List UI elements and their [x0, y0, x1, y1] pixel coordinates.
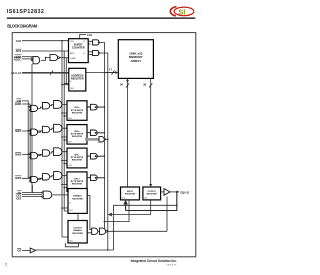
wire right gate2 rail down staircase	[100, 53, 151, 250]
gate OR row2 b	[43, 126, 50, 132]
svg-text:CLK: CLK	[70, 41, 75, 43]
wire CLK rail	[62, 41, 69, 237]
svg-text:REGISTER: REGISTER	[125, 193, 136, 195]
svg-text:BW3: BW3	[15, 176, 21, 180]
heading BLOCK DIAGRAM	[7, 24, 38, 29]
pin label ADSC	[14, 57, 22, 61]
register byte write 1	[67, 101, 87, 121]
write driver bus arrow	[85, 137, 108, 142]
register output enable pipeline	[68, 221, 87, 244]
pin label CLK top	[87, 33, 92, 37]
label 36 right	[143, 83, 146, 87]
svg-text:OE: OE	[17, 249, 21, 253]
wire gate1 to gate2	[41, 58, 50, 61]
gate AND row4 c	[54, 172, 62, 180]
junction gate jog	[45, 57, 47, 59]
bus slash 36 right	[149, 83, 152, 87]
arrowhead into memory	[115, 71, 118, 74]
wire ADSP input	[22, 56, 31, 58]
gate NOR row3 a	[30, 153, 31, 154]
wire B0 out to right gates	[88, 41, 92, 54]
pin label CLK left	[16, 39, 22, 43]
gate AND output enable	[92, 228, 98, 234]
logo ICSI	[170, 7, 193, 17]
wire ADSP qualify rail	[31, 64, 33, 193]
footer company	[131, 259, 178, 263]
svg-text:ARRAY: ARRAY	[130, 59, 142, 63]
header rule	[7, 17, 196, 19]
arrowhead write bus	[126, 78, 129, 81]
wire gate2 out to B0 load	[59, 57, 69, 59]
wire load rail	[64, 58, 69, 84]
wire right gate1 rail down to memory address line	[100, 42, 118, 231]
label DQ	[181, 191, 190, 194]
svg-text:COUNTER: COUNTER	[72, 46, 85, 50]
svg-text:ADSC: ADSC	[14, 57, 22, 61]
wire CLK input	[22, 40, 69, 42]
pin label BW3	[15, 176, 21, 180]
register data output	[143, 187, 161, 200]
register B0 burst address counter	[69, 39, 89, 63]
svg-text:ENABLE: ENABLE	[73, 195, 82, 198]
svg-text:A0,A,A1: A0,A,A1	[11, 71, 22, 75]
buffer output driver	[161, 189, 180, 196]
gate OR row3 b	[43, 150, 50, 156]
gate AND right row1	[87, 104, 104, 110]
label 17	[109, 68, 112, 72]
byte write row2	[28, 124, 67, 135]
svg-text:REGISTER: REGISTER	[72, 136, 83, 138]
svg-text:CLK: CLK	[87, 33, 92, 37]
register B1 address register	[69, 68, 86, 91]
svg-text:REGISTER: REGISTER	[72, 198, 83, 200]
register enable	[68, 189, 87, 214]
gate NOR row2 a	[30, 130, 31, 131]
wire ADSC input	[22, 58, 31, 60]
register byte write 3	[67, 148, 87, 168]
wire write data bus up	[127, 80, 129, 188]
svg-text:CLK: CLK	[70, 88, 75, 90]
diagram border	[12, 33, 196, 257]
wire row4	[28, 176, 67, 182]
svg-text:ENABLE: ENABLE	[73, 229, 82, 232]
wire B1 to memory array	[86, 72, 117, 74]
byte write row1	[28, 101, 67, 112]
svg-text:CE2: CE2	[16, 196, 22, 200]
pin label A	[11, 71, 22, 75]
svg-text:SI: SI	[178, 7, 185, 16]
svg-text:ADV: ADV	[16, 49, 22, 53]
register byte write 2	[67, 125, 87, 145]
bus slash 36 left	[126, 83, 129, 87]
wire ADV rail	[64, 51, 68, 211]
gate OR row1 b	[43, 103, 50, 109]
svg-text:OUTPUT: OUTPUT	[73, 227, 82, 229]
svg-text:DR009-0E: DR009-0E	[166, 265, 177, 267]
svg-text:REGISTER: REGISTER	[72, 233, 83, 235]
pin label CE2b	[16, 196, 22, 200]
gate AND CE	[42, 191, 68, 199]
gate AND right row3	[87, 153, 104, 159]
gate NOR row4 a	[30, 177, 31, 178]
wire B0 clk stub	[80, 35, 86, 39]
pin label BWE	[15, 102, 21, 106]
memory array	[118, 40, 153, 79]
wire GW rail	[22, 64, 43, 193]
pin label ADV	[16, 49, 22, 53]
wire address bus A	[22, 72, 69, 74]
gate AND right top 2	[93, 50, 100, 55]
wire row3	[28, 152, 67, 158]
register byte write 4	[67, 172, 87, 192]
gate AND clk/adsp	[50, 55, 59, 61]
pin label BW1	[15, 129, 21, 133]
bus slash A	[50, 71, 53, 75]
svg-text:CLK: CLK	[16, 39, 22, 43]
footer docnum	[166, 265, 177, 267]
wire DQ feedback	[104, 191, 177, 250]
pin label CE	[18, 191, 22, 195]
svg-text:Integrated Circuit Solution In: Integrated Circuit Solution Inc.	[131, 259, 178, 263]
gate NOR row1 a	[30, 106, 31, 107]
wire BW3 line	[22, 177, 43, 179]
buffer OE	[22, 248, 114, 253]
register data input	[121, 187, 140, 200]
title IS61SP12832	[7, 9, 44, 15]
byte write row4	[28, 172, 67, 183]
pin label OE	[17, 249, 21, 253]
svg-text:DQ0-31: DQ0-31	[181, 191, 190, 194]
pin label CE2	[16, 194, 22, 198]
gate AND row1 c	[54, 101, 62, 109]
svg-text:REGISTER: REGISTER	[72, 184, 83, 186]
gate AND row3 c	[54, 148, 62, 156]
svg-text:REGISTER: REGISTER	[147, 193, 158, 195]
wire row1	[28, 104, 67, 110]
wire row2	[28, 128, 67, 134]
svg-text:REGISTER: REGISTER	[72, 112, 83, 114]
gate AND right row2	[87, 130, 104, 136]
svg-text:REGISTER: REGISTER	[71, 78, 84, 81]
wire BW2 line	[22, 154, 43, 156]
svg-text:REGISTER: REGISTER	[72, 160, 83, 162]
gate AND right row4	[87, 175, 104, 181]
wire enable chain	[65, 196, 91, 247]
footer page number	[5, 262, 8, 267]
overbars active-low	[15, 49, 22, 249]
wire read data bus down	[150, 78, 152, 185]
svg-text:BW2: BW2	[15, 152, 21, 156]
svg-text:ADV: ADV	[70, 52, 75, 55]
wire BW1 line	[22, 130, 43, 132]
wire CE inputs	[22, 185, 42, 197]
pin label ADSP	[14, 55, 22, 59]
bus slash 17	[112, 70, 115, 74]
svg-text:BWE: BWE	[15, 102, 21, 106]
svg-text:LOAD: LOAD	[70, 57, 76, 60]
label 36 left	[120, 83, 123, 87]
svg-text:IS61SP12832: IS61SP12832	[7, 9, 44, 15]
arrowhead read bus	[149, 184, 152, 187]
pin label BW2	[15, 152, 21, 156]
svg-text:BW1: BW1	[15, 129, 21, 133]
gate AND write driver	[99, 137, 104, 142]
wire ADV input	[22, 50, 69, 52]
gate OR row4 b	[43, 174, 50, 180]
svg-text:BLOCK DIAGRAM: BLOCK DIAGRAM	[7, 24, 38, 29]
byte write row3	[28, 148, 67, 159]
gate AND row2 c	[54, 124, 62, 132]
gate NOR ADSP/ADSC	[31, 56, 39, 63]
buffer output enable	[98, 197, 167, 235]
pin label GW	[17, 99, 22, 103]
gate AND right top 1	[93, 40, 100, 45]
